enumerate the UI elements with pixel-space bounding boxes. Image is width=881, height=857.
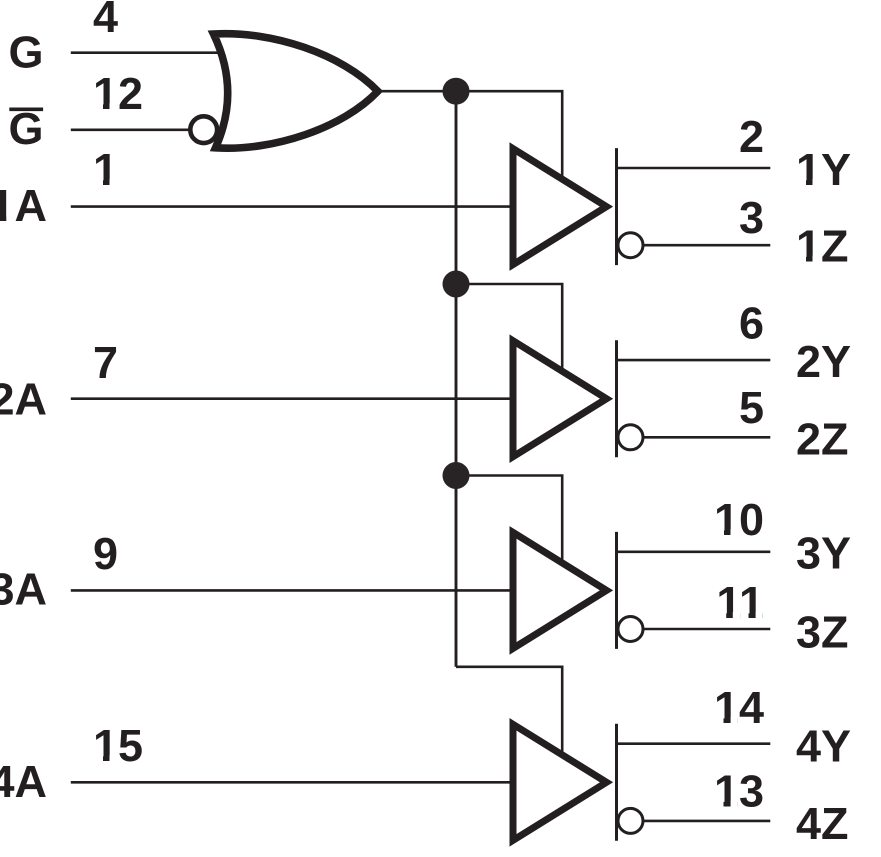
node junction C (bus to buffer 3) xyxy=(443,462,470,489)
node junction B (bus to buffer 2) xyxy=(443,271,470,298)
svg-text:3: 3 xyxy=(739,192,764,243)
white patches to remove foot serifs from "1" glyphs (match Helvetica-style 1) xyxy=(0,103,820,808)
buffer U5 triangle (channel 4) xyxy=(513,724,607,840)
svg-text:7: 7 xyxy=(93,337,118,388)
svg-text:4Z: 4Z xyxy=(796,798,849,849)
wire 4Y output (pin 14) xyxy=(617,742,771,745)
buffer U4 triangle (channel 3) xyxy=(513,532,607,648)
inverter bubble 3Z xyxy=(618,617,643,642)
inverter bubble on G-bar input of OR gate xyxy=(190,116,217,143)
wire 3A input (pin 9) xyxy=(71,589,517,592)
wire 4A input (pin 15) xyxy=(71,781,517,784)
svg-text:9: 9 xyxy=(93,528,118,579)
node junction A (OR output to bus) xyxy=(443,78,470,105)
wire 2Y output (pin 6) xyxy=(617,359,771,362)
wire enable branch to buffer 1 xyxy=(456,91,562,182)
svg-text:4Y: 4Y xyxy=(796,721,851,772)
inverter bubble 2Z xyxy=(618,425,643,450)
svg-text:1Y: 1Y xyxy=(796,144,851,195)
svg-text:5: 5 xyxy=(739,382,764,433)
svg-text:2Y: 2Y xyxy=(796,336,851,387)
svg-text:G: G xyxy=(8,26,43,77)
svg-text:2Z: 2Z xyxy=(796,413,849,464)
wire 3Z output (pin 11) xyxy=(644,628,770,631)
wire 4Z output (pin 13) xyxy=(644,820,770,823)
svg-text:15: 15 xyxy=(93,720,143,771)
svg-text:1: 1 xyxy=(93,144,118,195)
svg-text:3A: 3A xyxy=(0,564,47,615)
svg-text:10: 10 xyxy=(714,494,764,545)
svg-text:13: 13 xyxy=(714,766,764,817)
svg-text:6: 6 xyxy=(739,298,764,349)
svg-text:1A: 1A xyxy=(0,180,47,231)
svg-text:4A: 4A xyxy=(0,756,47,807)
svg-text:14: 14 xyxy=(714,682,764,733)
output bar of buffer 1 xyxy=(615,148,618,265)
output bar of buffer 3 xyxy=(615,532,618,649)
wire enable branch to buffer 4 xyxy=(456,667,562,759)
output bar of buffer 2 xyxy=(615,340,618,457)
svg-text:2A: 2A xyxy=(0,374,47,425)
wire G-bar input (pin 12) xyxy=(71,129,192,132)
wire enable branch to buffer 2 xyxy=(456,284,562,375)
wire enable branch to buffer 3 xyxy=(456,476,562,567)
wire 2A input (pin 7) xyxy=(71,397,517,400)
wire enable bus vertical xyxy=(455,91,458,667)
wire 2Z output (pin 5) xyxy=(644,436,770,439)
wire 1Y output (pin 2) xyxy=(617,167,771,170)
OR gate U1 (enable gate) xyxy=(214,34,378,149)
svg-text:4: 4 xyxy=(93,0,118,42)
overline of G-bar xyxy=(9,107,43,111)
wire 1Z output (pin 3) xyxy=(644,244,770,247)
buffer U2 triangle (channel 1) xyxy=(513,149,607,265)
wire 3Y output (pin 10) xyxy=(617,550,771,553)
wire G input (pin 4) xyxy=(71,51,226,54)
output bar of buffer 4 xyxy=(615,724,618,841)
svg-text:12: 12 xyxy=(93,68,143,119)
buffer U3 triangle (channel 2) xyxy=(513,341,607,457)
svg-text:2: 2 xyxy=(739,111,764,162)
svg-text:3Z: 3Z xyxy=(796,607,849,658)
inverter bubble 4Z xyxy=(618,808,643,833)
inverter bubble 1Z xyxy=(618,233,643,258)
wire 1A input (pin 1) xyxy=(71,205,517,208)
svg-text:1Z: 1Z xyxy=(796,220,849,271)
wire OR gate output xyxy=(374,90,456,93)
svg-text:3Y: 3Y xyxy=(796,527,851,578)
svg-text:11: 11 xyxy=(716,577,764,628)
